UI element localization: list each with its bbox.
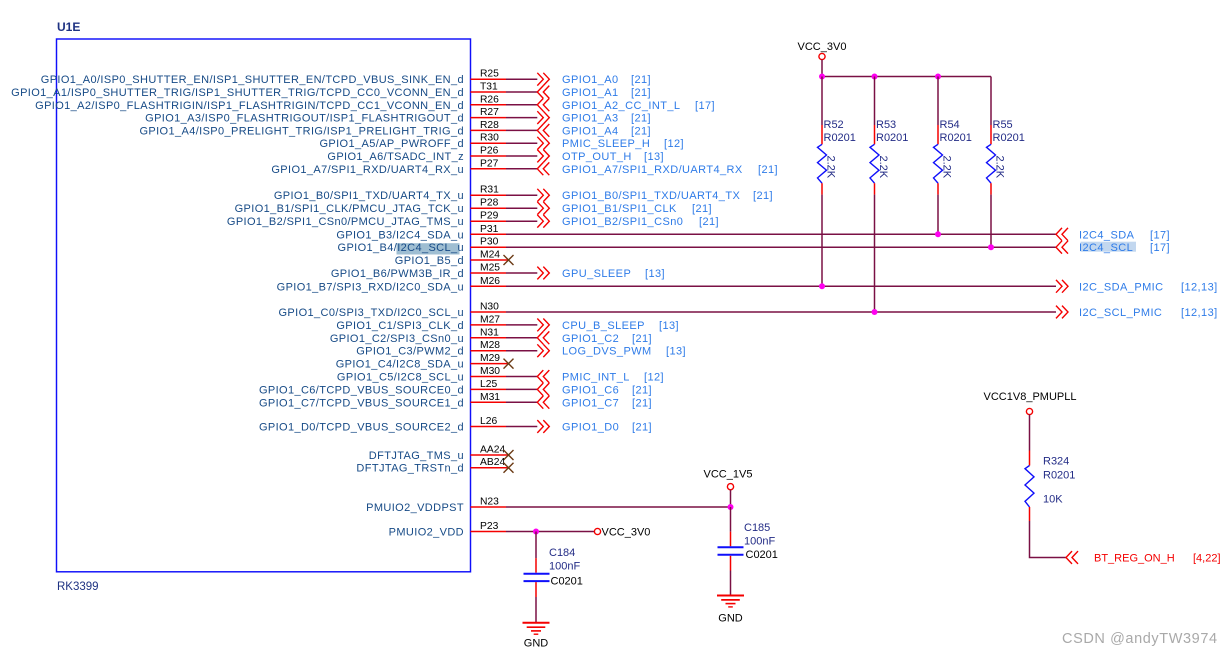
wire R55 bottom to net <box>990 195 992 248</box>
resistor R54 2.2K R0201 pull-up <box>934 77 972 195</box>
svg-text:P28: P28 <box>480 198 499 209</box>
svg-text:[12]: [12] <box>664 138 684 150</box>
svg-text:R52: R52 <box>824 119 844 131</box>
node GPIO1_A1 off-page port input <box>537 86 651 99</box>
wire GPIO1_A1 to port <box>506 91 537 93</box>
svg-text:GPIO1_A3/ISP0_FLASHTRIGOUT/ISP: GPIO1_A3/ISP0_FLASHTRIGOUT/ISP1_FLASHTRI… <box>145 113 464 125</box>
svg-text:GPIO1_B0/SPI1_TXD/UART4_TX: GPIO1_B0/SPI1_TXD/UART4_TX <box>562 190 740 202</box>
svg-text:[17]: [17] <box>1150 242 1170 254</box>
svg-text:100nF: 100nF <box>549 561 580 573</box>
svg-text:M26: M26 <box>480 276 500 287</box>
wire GPIO1_B1 to port <box>506 207 537 209</box>
svg-text:I2C_SDA_PMIC: I2C_SDA_PMIC <box>1079 281 1164 293</box>
svg-text:[21]: [21] <box>631 74 651 86</box>
wire R54 bottom to net <box>937 195 939 235</box>
wire net I2C_SDA_PMIC from pin M26 to right port <box>506 285 1056 287</box>
junction dots on VCC bus <box>819 74 941 80</box>
svg-text:GPIO1_C6/TCPD_VBUS_SOURCE0_d: GPIO1_C6/TCPD_VBUS_SOURCE0_d <box>259 384 464 396</box>
svg-text:2.2K: 2.2K <box>993 156 1005 179</box>
svg-text:R0201: R0201 <box>993 132 1025 144</box>
svg-text:PMUIO2_VDD: PMUIO2_VDD <box>389 527 464 539</box>
svg-text:R30: R30 <box>480 133 499 144</box>
svg-text:10K: 10K <box>1043 494 1063 506</box>
no-connect X on pin AB24 <box>504 463 514 473</box>
svg-text:M29: M29 <box>480 353 500 364</box>
wire PMUIO2_VDDPST to VCC_1V5 rail <box>506 506 731 508</box>
node I2C_SCL_PMIC off-page port output <box>1056 306 1218 319</box>
svg-text:R25: R25 <box>480 69 499 80</box>
power symbol VCC_3V0 top <box>798 41 847 77</box>
svg-text:GPU_SLEEP: GPU_SLEEP <box>562 268 631 280</box>
pin T31 GPIO1_A1 stub wire <box>11 82 506 100</box>
svg-text:N23: N23 <box>480 497 499 508</box>
svg-text:GPIO1_C7: GPIO1_C7 <box>562 397 619 409</box>
ground symbol GND under C184 <box>523 623 550 650</box>
svg-text:I2C4_SCL: I2C4_SCL <box>1079 242 1133 254</box>
svg-text:L26: L26 <box>480 416 497 427</box>
svg-text:[17]: [17] <box>1150 229 1170 241</box>
svg-text:R54: R54 <box>940 119 960 131</box>
wire net I2C_SCL_PMIC from pin N30 to right port <box>506 311 1056 313</box>
node GPIO1_B0/SPI1_TXD/UART4_TX off-page port output <box>537 189 773 202</box>
pin P28 GPIO1_B1 stub wire <box>235 198 506 216</box>
svg-text:[21]: [21] <box>631 87 651 99</box>
svg-text:GPIO1_C5/I2C8_SCL_u: GPIO1_C5/I2C8_SCL_u <box>337 372 464 384</box>
svg-text:C0201: C0201 <box>746 549 778 561</box>
wire R52 bottom to net <box>821 195 823 287</box>
node GPIO1_A7/SPI1_RXD/UART4_RX off-page port input <box>537 162 778 175</box>
svg-text:GPIO1_B3/I2C4_SDA_u: GPIO1_B3/I2C4_SDA_u <box>336 229 464 241</box>
node GPIO1_C7 off-page port input <box>537 396 652 409</box>
svg-text:GPIO1_C1/SPI3_CLK_d: GPIO1_C1/SPI3_CLK_d <box>336 320 464 332</box>
svg-text:GPIO1_A6/TSADC_INT_z: GPIO1_A6/TSADC_INT_z <box>327 151 464 163</box>
wire GPIO1_B0 to port <box>506 194 537 196</box>
svg-text:GPIO1_A2_CC_INT_L: GPIO1_A2_CC_INT_L <box>562 100 680 112</box>
svg-text:[21]: [21] <box>699 216 719 228</box>
wire GPIO1_A3 to port <box>506 117 537 119</box>
pin AA24 DFTJTAG_TMS_u stub wire <box>369 445 508 463</box>
node I2C_SDA_PMIC off-page port output <box>1056 280 1218 293</box>
svg-text:GPIO1_C2: GPIO1_C2 <box>562 333 619 345</box>
svg-text:BT_REG_ON_H: BT_REG_ON_H <box>1094 553 1175 565</box>
svg-text:100nF: 100nF <box>744 536 775 548</box>
svg-text:M27: M27 <box>480 314 500 325</box>
svg-text:GPIO1_A7/SPI1_RXD/UART4_RX_u: GPIO1_A7/SPI1_RXD/UART4_RX_u <box>271 164 464 176</box>
wire GPIO1_A0 to port <box>506 78 537 80</box>
capacitor C185 100nF C0201 <box>718 507 778 571</box>
node PMIC_SLEEP_H off-page port output <box>537 137 684 150</box>
svg-text:PMUIO2_VDDPST: PMUIO2_VDDPST <box>366 502 464 514</box>
svg-text:PMIC_INT_L: PMIC_INT_L <box>562 372 630 384</box>
pin R26 GPIO1_A2 stub wire <box>35 94 506 112</box>
wire GPIO1_C6 to port <box>506 388 537 390</box>
wire net I2C4_SDA from pin P31 to right port <box>506 233 1056 235</box>
node PMIC_INT_L off-page port input <box>537 370 664 383</box>
wire GPIO1_B2 to port <box>506 220 537 222</box>
svg-text:[21]: [21] <box>753 190 773 202</box>
svg-text:GPIO1_C6: GPIO1_C6 <box>562 384 619 396</box>
svg-text:GPIO1_D0/TCPD_VBUS_SOURCE2_d: GPIO1_D0/TCPD_VBUS_SOURCE2_d <box>259 422 464 434</box>
svg-text:GPIO1_A2/ISP0_FLASHTRIGIN/ISP1: GPIO1_A2/ISP0_FLASHTRIGIN/ISP1_FLASHTRIG… <box>35 100 464 112</box>
pin M30 GPIO1_C5 stub wire <box>337 366 506 384</box>
pin R28 GPIO1_A4 stub wire <box>139 120 506 137</box>
watermark <box>1062 631 1218 647</box>
svg-text:GPIO1_C7/TCPD_VBUS_SOURCE1_d: GPIO1_C7/TCPD_VBUS_SOURCE1_d <box>259 397 464 409</box>
svg-text:[13]: [13] <box>666 346 686 358</box>
svg-text:2.2K: 2.2K <box>877 156 889 179</box>
svg-text:[21]: [21] <box>632 422 652 434</box>
svg-text:P23: P23 <box>480 521 499 532</box>
wire GPIO1_B6 to port <box>506 272 537 274</box>
svg-text:AB24: AB24 <box>480 457 505 468</box>
svg-text:[21]: [21] <box>758 164 778 176</box>
wire GPIO1_D0 to port <box>506 426 537 428</box>
svg-text:U1E: U1E <box>57 20 80 34</box>
node GPIO1_D0 off-page port output <box>537 420 652 433</box>
svg-text:GPIO1_B6/PWM3B_IR_d: GPIO1_B6/PWM3B_IR_d <box>331 268 464 280</box>
capacitor C184 100nF C0201 <box>524 532 583 598</box>
wire GPIO1_A5 to port <box>506 142 537 144</box>
svg-text:LOG_DVS_PWM: LOG_DVS_PWM <box>562 346 652 358</box>
svg-text:R55: R55 <box>993 119 1013 131</box>
svg-text:P27: P27 <box>480 158 499 169</box>
svg-text:[21]: [21] <box>632 397 652 409</box>
svg-text:M31: M31 <box>480 392 500 403</box>
svg-text:P30: P30 <box>480 237 499 248</box>
no-connect X on pin M24 <box>504 255 514 265</box>
reference designator U1E <box>57 20 80 34</box>
svg-text:R28: R28 <box>480 120 499 131</box>
power symbol VCC1V8_PMUPLL <box>984 391 1077 451</box>
pin M26 GPIO1_B7 stub wire <box>277 276 506 294</box>
svg-text:R0201: R0201 <box>1043 470 1075 482</box>
pin L25 GPIO1_C6 stub wire <box>259 379 506 397</box>
node LOG_DVS_PWM off-page port output <box>537 344 686 357</box>
wire GPIO1_C2 to port <box>506 337 537 339</box>
svg-text:OTP_OUT_H: OTP_OUT_H <box>562 151 632 163</box>
svg-text:VCC1V8_PMUPLL: VCC1V8_PMUPLL <box>984 391 1077 403</box>
svg-text:GPIO1_B2/SPI1_CSn0/PMCU_JTAG_T: GPIO1_B2/SPI1_CSn0/PMCU_JTAG_TMS_u <box>227 216 464 228</box>
resistor R53 2.2K R0201 pull-up <box>870 77 908 195</box>
wire GPIO1_C1 to port <box>506 324 537 326</box>
svg-text:[21]: [21] <box>632 384 652 396</box>
svg-text:R26: R26 <box>480 94 499 105</box>
svg-text:GPIO1_C4/I2C8_SDA_u: GPIO1_C4/I2C8_SDA_u <box>336 359 464 371</box>
svg-text:C0201: C0201 <box>551 576 583 588</box>
svg-text:[21]: [21] <box>632 333 652 345</box>
wire GPIO1_A6 to port <box>506 155 537 157</box>
svg-text:GPIO1_A0/ISP0_SHUTTER_EN/ISP1_: GPIO1_A0/ISP0_SHUTTER_EN/ISP1_SHUTTER_EN… <box>41 74 464 86</box>
value label RK3399 <box>57 581 99 593</box>
node GPIO1_B2/SPI1_CSn0 off-page port output <box>537 215 719 228</box>
power symbol VCC_3V0 right <box>594 527 650 539</box>
svg-text:[21]: [21] <box>692 203 712 215</box>
wire net I2C4_SCL from pin P30 to right port <box>506 246 1056 248</box>
svg-text:AA24: AA24 <box>480 445 505 456</box>
node GPIO1_A0 off-page port output <box>537 73 651 86</box>
svg-text:CPU_B_SLEEP: CPU_B_SLEEP <box>562 320 645 332</box>
resistor R52 2.2K R0201 pull-up <box>818 77 856 195</box>
wire VCC_3V0 bus <box>822 76 991 78</box>
pin R27 GPIO1_A3 stub wire <box>145 107 506 125</box>
svg-text:C184: C184 <box>549 547 575 559</box>
svg-text:R0201: R0201 <box>940 132 972 144</box>
svg-text:R31: R31 <box>480 185 499 196</box>
svg-text:GND: GND <box>524 638 549 650</box>
node GPIO1_A4 off-page port input <box>537 124 651 137</box>
pin M31 GPIO1_C7 stub wire <box>259 392 506 410</box>
svg-text:GPIO1_B1/SPI1_CLK/PMCU_JTAG_TC: GPIO1_B1/SPI1_CLK/PMCU_JTAG_TCK_u <box>235 203 464 215</box>
junction node PMUIO2_VDD / C184 <box>533 529 539 535</box>
pin L26 GPIO1_D0 stub wire <box>259 416 506 434</box>
svg-text:GPIO1_D0: GPIO1_D0 <box>562 422 619 434</box>
svg-text:VCC_3V0: VCC_3V0 <box>602 527 651 539</box>
node BT_REG_ON_H off-page port input <box>1066 551 1221 564</box>
svg-text:[21]: [21] <box>631 125 651 137</box>
resistor R324 10K R0201 <box>1025 451 1075 522</box>
wire GPIO1_A2 to port <box>506 104 537 106</box>
svg-text:GPIO1_B7/SPI3_RXD/I2C0_SDA_u: GPIO1_B7/SPI3_RXD/I2C0_SDA_u <box>277 281 464 293</box>
pin M25 GPIO1_B6 stub wire <box>331 263 506 281</box>
pin N23 PMUIO2_VDDPST stub wire <box>366 497 506 515</box>
svg-text:N30: N30 <box>480 302 499 313</box>
wire GPIO1_C3 to port <box>506 350 537 352</box>
node GPU_SLEEP off-page port output <box>537 267 665 280</box>
svg-text:GPIO1_A4/ISP0_PRELIGHT_TRIG/IS: GPIO1_A4/ISP0_PRELIGHT_TRIG/ISP1_PRELIGH… <box>139 125 464 137</box>
pin P30 GPIO1_B4 stub wire <box>338 237 506 255</box>
svg-text:VCC_1V5: VCC_1V5 <box>704 469 753 481</box>
svg-text:I2C4_SDA: I2C4_SDA <box>1079 229 1135 241</box>
wire GPIO1_A7 to port <box>506 168 537 170</box>
pin N30 GPIO1_C0 stub wire <box>278 302 506 320</box>
svg-text:R324: R324 <box>1043 456 1069 468</box>
power symbol VCC_1V5 <box>704 469 753 508</box>
svg-text:DFTJTAG_TRSTn_d: DFTJTAG_TRSTn_d <box>356 463 464 475</box>
pin R31 GPIO1_B0 stub wire <box>274 185 506 203</box>
pin M28 GPIO1_C3 stub wire <box>356 340 506 358</box>
svg-text:GPIO1_A5/AP_PWROFF_d: GPIO1_A5/AP_PWROFF_d <box>319 138 464 150</box>
node GPIO1_C2 off-page port input <box>537 331 652 344</box>
no-connect X on pin M29 <box>504 359 514 369</box>
node CPU_B_SLEEP off-page port output <box>537 319 679 332</box>
svg-text:[17]: [17] <box>695 100 715 112</box>
svg-text:R0201: R0201 <box>824 132 856 144</box>
svg-text:GPIO1_A7/SPI1_RXD/UART4_RX: GPIO1_A7/SPI1_RXD/UART4_RX <box>562 164 743 176</box>
svg-text:PMIC_SLEEP_H: PMIC_SLEEP_H <box>562 138 650 150</box>
pin M24 GPIO1_B5_d stub wire <box>395 250 508 268</box>
svg-text:DFTJTAG_TMS_u: DFTJTAG_TMS_u <box>369 450 464 462</box>
junction node VCC_1V5 / C185 <box>728 504 734 510</box>
svg-text:2.2K: 2.2K <box>824 156 836 179</box>
junction dots resistor bottoms <box>819 231 994 315</box>
svg-text:L25: L25 <box>480 379 497 390</box>
svg-text:GPIO1_A4: GPIO1_A4 <box>562 125 619 137</box>
svg-text:[4,22]: [4,22] <box>1193 553 1221 565</box>
svg-text:GPIO1_C3/PWM2_d: GPIO1_C3/PWM2_d <box>356 346 464 358</box>
svg-text:T31: T31 <box>480 82 498 93</box>
node OTP_OUT_H off-page port output <box>537 150 664 163</box>
svg-text:GPIO1_C2/SPI3_CSn0_u: GPIO1_C2/SPI3_CSn0_u <box>330 333 464 345</box>
pin N31 GPIO1_C2 stub wire <box>330 327 506 345</box>
svg-text:GPIO1_C0/SPI3_TXD/I2C0_SCL_u: GPIO1_C0/SPI3_TXD/I2C0_SCL_u <box>278 307 464 319</box>
svg-text:VCC_3V0: VCC_3V0 <box>798 41 847 53</box>
pin R25 GPIO1_A0 stub wire <box>41 69 506 87</box>
wire GPIO1_C5 to port <box>506 376 537 378</box>
pin AB24 DFTJTAG_TRSTn_d stub wire <box>356 457 507 475</box>
svg-text:[12]: [12] <box>644 372 664 384</box>
svg-text:[13]: [13] <box>645 268 665 280</box>
svg-text:P26: P26 <box>480 146 499 157</box>
pin P27 GPIO1_A7 stub wire <box>271 158 506 176</box>
pin M29 GPIO1_C4 stub wire <box>336 353 508 371</box>
pin P29 GPIO1_B2 stub wire <box>227 211 506 229</box>
wire R324 to BT_REG_ON_H port <box>1030 521 1067 558</box>
svg-text:GPIO1_A1/ISP0_SHUTTER_TRIG/ISP: GPIO1_A1/ISP0_SHUTTER_TRIG/ISP1_SHUTTER_… <box>11 87 464 99</box>
svg-text:R27: R27 <box>480 107 499 118</box>
svg-text:M24: M24 <box>480 250 500 261</box>
IC U1E RK3399 GPIO bank component body <box>57 39 471 572</box>
svg-text:GPIO1_A3: GPIO1_A3 <box>562 113 619 125</box>
node GPIO1_C6 off-page port input <box>537 383 652 396</box>
svg-text:RK3399: RK3399 <box>57 581 99 593</box>
node GPIO1_B1/SPI1_CLK off-page port output <box>537 202 712 215</box>
svg-text:[21]: [21] <box>631 113 651 125</box>
svg-text:C185: C185 <box>744 522 770 534</box>
svg-text:GPIO1_A0: GPIO1_A0 <box>562 74 619 86</box>
svg-text:P29: P29 <box>480 211 499 222</box>
svg-text:2.2K: 2.2K <box>940 156 952 179</box>
wire R53 bottom to net <box>874 195 876 312</box>
svg-text:M30: M30 <box>480 366 500 377</box>
node GPIO1_A2_CC_INT_L off-page port input <box>537 98 715 111</box>
svg-text:P31: P31 <box>480 224 499 235</box>
pin P23 PMUIO2_VDD stub wire <box>389 521 506 539</box>
svg-text:N31: N31 <box>480 327 499 338</box>
wire C184 to ground <box>535 597 537 623</box>
svg-text:GPIO1_B4/I2C4_SCL_u: GPIO1_B4/I2C4_SCL_u <box>338 242 464 254</box>
svg-text:CSDN @andyTW3974: CSDN @andyTW3974 <box>1062 631 1218 647</box>
svg-text:[12,13]: [12,13] <box>1181 281 1218 293</box>
svg-text:GPIO1_B0/SPI1_TXD/UART4_TX_u: GPIO1_B0/SPI1_TXD/UART4_TX_u <box>274 190 464 202</box>
wire GPIO1_C7 to port <box>506 401 537 403</box>
pin P31 GPIO1_B3 stub wire <box>336 224 506 242</box>
no-connect X on pin AA24 <box>504 450 514 460</box>
svg-text:M28: M28 <box>480 340 500 351</box>
node I2C4_SCL off-page port input (highlighted) <box>1056 241 1170 254</box>
pin M27 GPIO1_C1 stub wire <box>336 314 506 332</box>
svg-text:R53: R53 <box>876 119 896 131</box>
svg-text:GPIO1_B5_d: GPIO1_B5_d <box>395 255 464 267</box>
wire PMUIO2_VDD to VCC_3V0 tap <box>506 531 594 533</box>
svg-text:I2C_SCL_PMIC: I2C_SCL_PMIC <box>1079 307 1162 319</box>
node I2C4_SDA off-page port input <box>1056 228 1170 241</box>
resistor R55 2.2K R0201 pull-up <box>987 77 1025 195</box>
svg-text:GPIO1_A1: GPIO1_A1 <box>562 87 619 99</box>
wire C185 to ground <box>730 571 732 596</box>
svg-text:[12,13]: [12,13] <box>1181 307 1218 319</box>
node GPIO1_A3 off-page port output <box>537 111 651 124</box>
pin P26 GPIO1_A6 stub wire <box>327 146 506 164</box>
pin R30 GPIO1_A5 stub wire <box>319 133 506 151</box>
svg-text:GPIO1_B2/SPI1_CSn0: GPIO1_B2/SPI1_CSn0 <box>562 216 683 228</box>
svg-text:M25: M25 <box>480 263 500 274</box>
svg-text:[13]: [13] <box>659 320 679 332</box>
ground symbol GND under C185 <box>717 596 744 625</box>
svg-text:GND: GND <box>718 613 743 625</box>
svg-text:R0201: R0201 <box>876 132 908 144</box>
wire GPIO1_A4 to port <box>506 129 537 131</box>
svg-text:[13]: [13] <box>644 151 664 163</box>
svg-text:GPIO1_B1/SPI1_CLK: GPIO1_B1/SPI1_CLK <box>562 203 677 215</box>
